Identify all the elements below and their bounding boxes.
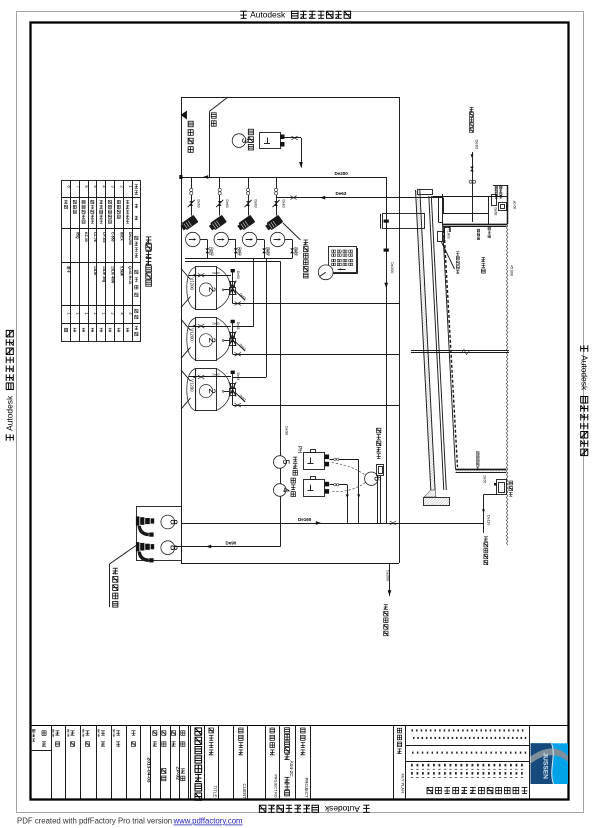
- right edu banner (rotated 90): [580, 345, 590, 455]
- svg-text:Autodesk: Autodesk: [324, 804, 360, 814]
- circle 5: [274, 456, 291, 469]
- qualification tiny rows: [411, 764, 523, 778]
- skimmer box on wall: [438, 232, 443, 242]
- svg-text:13L/h 40W: 13L/h 40W: [111, 266, 115, 284]
- svg-text:CLIENT: CLIENT: [242, 784, 247, 800]
- machine room rectangle: [181, 97, 400, 564]
- svg-text:De63: De63: [265, 247, 269, 255]
- balance tank float box: [492, 195, 497, 206]
- chemical tank: [260, 133, 285, 149]
- municipal supply drop pipe: [469, 152, 476, 222]
- col 图纸名称 / TITLE: [209, 728, 218, 797]
- through-wall balance pipe: [381, 214, 425, 229]
- label 接市政给水: [470, 107, 474, 132]
- svg-text:2: 2: [206, 287, 217, 292]
- svg-text:PH: PH: [296, 446, 302, 453]
- svg-text:De110: De110: [487, 515, 491, 525]
- pool drain pipe De110: [482, 495, 485, 534]
- De90 vertical pipe: [280, 262, 282, 547]
- equipment table 主要设备阀数表: [62, 180, 152, 341]
- De200 drain to sewer: [388, 563, 392, 596]
- label 游泳池: [481, 257, 485, 273]
- bottom edu banner (rotated 180): [259, 804, 369, 814]
- svg-text:2: 2: [206, 388, 217, 393]
- col 工程编号 / PROJECT NO.: [270, 728, 278, 799]
- label 坡向泄水口: [477, 452, 480, 470]
- svg-text:DN1200: DN1200: [128, 232, 132, 245]
- sheet type value 方案: [162, 769, 166, 781]
- circulation pump P1: [180, 177, 214, 259]
- svg-text:De63: De63: [213, 372, 221, 376]
- pool deck / water line: [443, 225, 508, 227]
- pool floor slab: [456, 470, 507, 473]
- svg-text:Autodesk: Autodesk: [580, 355, 590, 391]
- monitor sensor box: [377, 465, 384, 524]
- svg-text:80CX: 80CX: [119, 232, 123, 241]
- svg-text:De63: De63: [474, 140, 479, 150]
- water quality monitor circle 6: [365, 472, 383, 485]
- label 机房: [211, 113, 216, 126]
- top edu banner: [240, 10, 350, 20]
- circulation pump P4: [264, 177, 298, 259]
- sand filter tank T2 V1200: [181, 318, 399, 361]
- leader + label 备用排污泵: [110, 545, 138, 608]
- svg-text:Q=41 H=10: Q=41 H=10: [128, 266, 132, 284]
- gauge dial: [318, 265, 333, 280]
- project name value: [285, 728, 294, 796]
- label 水质监测仪: [377, 428, 381, 458]
- title block top edge: [30, 725, 569, 727]
- svg-text:De200: De200: [335, 171, 349, 176]
- svg-text:TITLE: TITLE: [212, 786, 217, 798]
- svg-text:PROJECT: PROJECT: [304, 778, 309, 798]
- svg-text:Autodesk: Autodesk: [5, 395, 15, 431]
- main drain pit: [484, 480, 507, 495]
- svg-text:De63: De63: [293, 247, 297, 255]
- overflow gutter: [439, 194, 443, 224]
- svg-text:De63: De63: [236, 373, 240, 381]
- wall top cap: [418, 190, 433, 195]
- title block column headers: [52, 730, 185, 747]
- svg-text:8: 8: [167, 545, 178, 551]
- svg-text:De50: De50: [482, 476, 486, 484]
- pool wall hatched band: [416, 190, 436, 490]
- svg-text:De90: De90: [226, 541, 237, 546]
- svg-text:PROJECT NO.: PROJECT NO.: [274, 775, 278, 799]
- chemical injection line 1: [330, 458, 361, 523]
- label 消毒剂: [291, 478, 295, 497]
- svg-text:www.pdffactory.com: www.pdffactory.com: [173, 817, 243, 826]
- dosing pump D1: [304, 450, 330, 470]
- left edu banner (rotated -90): [5, 330, 15, 440]
- svg-text:De63: De63: [237, 247, 241, 255]
- De160 main suction pipe: [181, 521, 484, 525]
- col 平面索引 / KEY PLAN: [397, 728, 405, 793]
- svg-text:65Q: 65Q: [75, 232, 79, 239]
- svg-text:De63: De63: [236, 271, 240, 279]
- pool wall inner line pair: [429, 196, 446, 490]
- svg-text:若干: 若干: [67, 265, 72, 274]
- label 机房地面: [188, 121, 193, 152]
- svg-text:2: 2: [206, 338, 217, 343]
- band bottom flare: [424, 490, 436, 497]
- svg-text:CL-76: CL-76: [93, 232, 97, 242]
- wall footing: [424, 497, 450, 506]
- ground marker 机房地面: [181, 111, 187, 120]
- circulation pump P3: [236, 177, 270, 259]
- sheet count value: [181, 769, 185, 781]
- svg-text:C-660: C-660: [111, 232, 115, 242]
- soil sawtooth line: [506, 224, 508, 545]
- title block verticals: [52, 725, 530, 799]
- sewage pump S2 circle 8: [136, 541, 178, 563]
- svg-text:CF-G3: CF-G3: [102, 232, 106, 243]
- big title 水处理工艺流程图: [195, 728, 202, 800]
- svg-text:De63: De63: [236, 322, 240, 330]
- balance tank inner square: [499, 203, 507, 211]
- svg-text:Autodesk: Autodesk: [250, 10, 286, 20]
- svg-text:-1.800: -1.800: [446, 229, 450, 239]
- De63 makeup pipe: [276, 196, 488, 214]
- pump suction manifold B: [185, 261, 281, 263]
- svg-text:De63: De63: [281, 200, 285, 208]
- svg-text:De63: De63: [225, 200, 229, 208]
- svg-text:De90: De90: [284, 426, 289, 436]
- col 工程名称 / PROJECT: [301, 728, 310, 798]
- company block dividers: [406, 746, 530, 762]
- sewage pump S1 circle 8: [136, 515, 178, 537]
- svg-text:De200: De200: [390, 262, 395, 274]
- svg-text:8: 8: [167, 519, 178, 525]
- metering pump circle 3: [232, 134, 250, 148]
- svg-text:45,000: 45,000: [509, 265, 513, 276]
- dosing discharge pipe: [285, 136, 303, 168]
- sand filter tank T1 V1200: [181, 267, 399, 310]
- monitor control dashed signals: [331, 463, 366, 492]
- chemical injection line 2: [330, 484, 349, 524]
- spare sewage pumps box: [137, 507, 182, 561]
- section break line: [411, 350, 509, 355]
- svg-text:De200: De200: [386, 570, 390, 581]
- svg-text:PDF created with pdfFactory Pr: PDF created with pdfFactory Pro trial ve…: [17, 817, 172, 826]
- label 池水面: [477, 229, 480, 240]
- label 泳池排水口: [456, 252, 459, 274]
- dosing pump D2: [304, 477, 330, 497]
- JUSSEN logo: [531, 743, 569, 784]
- label 池壁面: [488, 227, 491, 238]
- svg-text:De63: De63: [208, 247, 212, 255]
- svg-text:5.5kW: 5.5kW: [119, 266, 123, 277]
- pump suction manifold A: [185, 258, 292, 260]
- svg-text:4: 4: [281, 487, 291, 492]
- overflow grate: [444, 227, 450, 232]
- room corner chamfer: [210, 97, 229, 111]
- svg-text:De63: De63: [253, 200, 257, 208]
- De200 riser to pool balance tank: [384, 177, 389, 523]
- label 计量泵: [248, 129, 253, 150]
- spare pump leader + label 备用循环水泵: [283, 223, 301, 240]
- company contact tiny rows: [412, 729, 527, 753]
- De63 outlet labels: [208, 247, 297, 255]
- waterproofing dashed line: [444, 230, 458, 467]
- svg-text:De63: De63: [213, 322, 221, 326]
- svg-text:De63: De63: [197, 200, 201, 208]
- label 接市政排水 (pool): [484, 537, 488, 565]
- company name 广州中鹏康体设备有限公司: [427, 787, 527, 793]
- svg-text:De63: De63: [336, 191, 347, 196]
- svg-text:De63: De63: [213, 271, 221, 275]
- balance channel top line: [432, 196, 507, 198]
- svg-text:KZ-30: KZ-30: [84, 232, 88, 242]
- balance tank labels block: [495, 186, 502, 198]
- control cabinet: [329, 247, 358, 274]
- machine room partition wall: [209, 111, 211, 177]
- pool inner wall face: [443, 224, 456, 470]
- svg-text:JUSSEN: JUSSEN: [542, 753, 549, 780]
- svg-text:De160: De160: [298, 517, 312, 522]
- label PH调节剂: [293, 446, 302, 475]
- svg-text:ZP-02: ZP-02: [175, 767, 181, 781]
- svg-text:De63: De63: [493, 208, 497, 216]
- balance tank wall: [489, 185, 508, 224]
- De90 return pipe: [175, 545, 281, 549]
- label 泄水口: [509, 481, 513, 496]
- sand filter tank T3 V1200: [181, 368, 399, 410]
- svg-text:±0.00: ±0.00: [512, 201, 516, 210]
- label 接市政排水 (left): [384, 605, 388, 636]
- col 工程业主 / CLIENT: [239, 728, 248, 799]
- circle 4: [274, 484, 291, 497]
- svg-text:5: 5: [281, 459, 291, 464]
- manifold drop tank3: [233, 259, 267, 378]
- svg-text:13L/h: 13L/h: [93, 266, 97, 275]
- sign-off cell 会签: [30, 729, 52, 750]
- svg-text:13L/h 30g: 13L/h 30g: [102, 266, 106, 282]
- leader to drain label: [441, 241, 455, 269]
- circulation pump P2: [208, 177, 242, 259]
- De200 manifold pipe: [179, 175, 386, 179]
- manifold drop tank2: [233, 259, 254, 327]
- svg-text:A04-2C: A04-2C: [288, 761, 294, 778]
- svg-text:2013-04-03: 2013-04-03: [145, 758, 151, 783]
- svg-text:KEY PLAN: KEY PLAN: [401, 774, 406, 794]
